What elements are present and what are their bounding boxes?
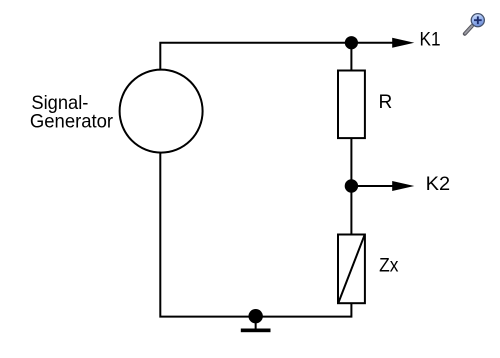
svg-text:R: R: [379, 91, 393, 113]
svg-text:Generator: Generator: [30, 111, 114, 133]
svg-text:K1: K1: [420, 29, 441, 51]
svg-text:Zx: Zx: [379, 255, 399, 277]
svg-text:K2: K2: [426, 173, 451, 195]
